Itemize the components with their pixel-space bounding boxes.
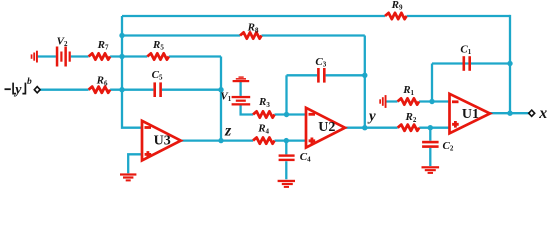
capacitor C3 <box>317 68 326 83</box>
svg-text:b: b <box>27 77 32 87</box>
ground below U3 plus input <box>120 173 136 181</box>
wire C4 branch vertical <box>285 141 287 180</box>
wire top feedback line (R9 net) <box>122 15 510 17</box>
wire C2 branch vertical <box>429 128 431 166</box>
node junction C3 right on vertical <box>362 73 367 78</box>
node junction C2 tap <box>428 125 433 130</box>
svg-text:U2: U2 <box>318 120 335 135</box>
svg-text:R3: R3 <box>258 96 270 109</box>
wire R8 feedback line <box>122 34 365 36</box>
ground above V1 <box>233 76 250 82</box>
battery V1 <box>232 96 251 106</box>
svg-text:z: z <box>224 122 232 139</box>
label input -y^b <box>5 77 33 97</box>
wire C3 left vertical down to U2 minus net <box>285 75 287 114</box>
resistor R9 <box>385 13 407 19</box>
ground left of V2 <box>31 51 38 63</box>
node junction C4 tap <box>284 138 289 143</box>
wire V1 battery top to ground <box>239 82 241 96</box>
resistor R7 <box>89 53 110 59</box>
resistor R8 <box>240 32 262 38</box>
svg-text:C2: C2 <box>443 140 454 153</box>
node junction C1 tap on R1 net <box>429 99 434 104</box>
svg-text:y: y <box>367 109 376 125</box>
svg-text:R9: R9 <box>391 0 403 12</box>
svg-text:x: x <box>538 105 547 122</box>
wire U3 plus input to ground <box>128 154 142 173</box>
resistor R5 <box>147 53 168 59</box>
wire C1 horizontal branch <box>432 62 510 64</box>
wire C1 left vertical down to R1 net <box>431 64 433 102</box>
svg-text:y: y <box>13 82 22 97</box>
ground below C4 <box>278 180 295 188</box>
svg-text:R1: R1 <box>402 84 414 97</box>
battery V2 <box>56 47 71 67</box>
node junction C1 right <box>507 61 512 66</box>
svg-text:C5: C5 <box>152 69 163 82</box>
wire V2 battery to R7 to R5 line <box>38 55 221 57</box>
capacitor C2 <box>422 141 439 148</box>
svg-text:R2: R2 <box>405 111 417 124</box>
op-amp U1 <box>450 94 491 134</box>
svg-text:C3: C3 <box>315 56 326 69</box>
node junction C3 tap on U2 minus net <box>284 112 289 117</box>
svg-text:U3: U3 <box>154 133 171 148</box>
resistor R2 <box>398 125 420 131</box>
wire C3 horizontal branch <box>287 74 365 76</box>
svg-text:V2: V2 <box>57 35 68 48</box>
wire U1 output to x terminal <box>490 112 529 114</box>
wire left input column (from top line down to U3 minus input) <box>122 16 142 128</box>
node junction (122,89.7) <box>119 87 124 92</box>
svg-text:R8: R8 <box>247 22 259 35</box>
op-amp U3 <box>142 121 181 161</box>
node junction (221,89.7) <box>218 87 223 92</box>
node junction (122,35.5) <box>119 33 124 38</box>
node junction U1 output <box>507 111 512 116</box>
wire z net (U3 output to R4 to U2 plus) <box>181 139 306 141</box>
wire V1 battery bottom to R3 to U2 minus <box>241 106 306 115</box>
resistor R6 <box>89 87 110 93</box>
resistor R4 <box>253 138 275 144</box>
ground left of R1 <box>379 95 386 108</box>
node z junction <box>218 138 223 143</box>
svg-text:C1: C1 <box>460 44 471 57</box>
svg-text:R5: R5 <box>152 39 164 52</box>
svg-text:R4: R4 <box>257 123 269 136</box>
wire vertical from R5/C5 line down to z node <box>220 57 222 141</box>
svg-text:C4: C4 <box>300 151 311 164</box>
input terminal diamond <box>34 87 40 93</box>
ground below C2 <box>422 166 440 174</box>
capacitor C4 <box>279 154 295 161</box>
capacitor C1 <box>463 56 472 71</box>
svg-text:R6: R6 <box>96 75 108 88</box>
wire vertical from R8 line down to y node <box>364 36 366 128</box>
wire input diamond through R6 and C5 <box>40 89 221 91</box>
svg-text:R7: R7 <box>97 39 109 52</box>
svg-text:V1: V1 <box>220 90 231 103</box>
output terminal diamond <box>529 110 535 116</box>
wire R1 ground to R1 to U1 minus <box>386 100 449 102</box>
resistor R1 <box>398 98 420 104</box>
node junction (122,56.5) <box>119 54 124 59</box>
capacitor C5 <box>153 82 162 97</box>
svg-text:U1: U1 <box>462 107 479 122</box>
op-amp U2 <box>306 108 345 148</box>
wire right vertical from R9 line to U1 output <box>509 15 511 113</box>
node y junction <box>362 125 367 130</box>
resistor R3 <box>253 111 275 117</box>
wire y net (U2 output to R2 to U1 plus) <box>345 127 450 129</box>
